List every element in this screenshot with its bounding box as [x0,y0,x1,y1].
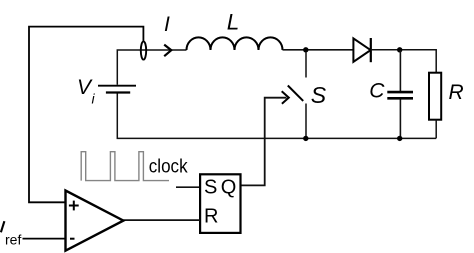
node junction dot (diode/cap) [397,47,402,52]
wire diode to output node and corner to resistor [371,50,436,73]
plus input marker [69,201,79,211]
svg-text:Q: Q [221,177,237,199]
battery Vi [98,86,136,93]
svg-text:R: R [204,206,218,228]
current arrow [164,45,171,57]
wire switch bottom to rail [305,104,307,139]
wire feedback loop: sense line to comparator + input [29,27,143,203]
resistor R [429,73,441,120]
wire node to capacitor [399,50,401,91]
switch S blade [288,86,303,101]
wire clock to S input [176,186,200,188]
flip-flop U1 (SR latch) [200,174,240,233]
capacitor C [387,92,413,98]
wire capacitor to bottom rail [399,100,401,139]
label Vref [1,221,22,247]
svg-text:L: L [227,10,240,35]
svg-text:i: i [92,90,96,106]
control arrowhead [282,91,289,104]
svg-text:R: R [449,81,464,104]
node dot capacitor/bottom rail [397,136,402,141]
label Vi [77,76,96,106]
svg-text:I: I [164,13,170,36]
node dot switch/bottom rail [303,136,308,141]
op-amp U2 comparator [66,191,124,251]
bottom rail wire [117,94,436,139]
inductor L [187,37,283,50]
wire resistor to bottom rail [435,120,437,139]
svg-text:ref: ref [5,231,21,247]
svg-text:S: S [204,177,217,199]
svg-text:clock: clock [149,155,188,177]
clock waveform [81,152,169,181]
diode D [353,38,370,62]
svg-text:S: S [311,82,327,108]
wire battery top / main node [117,50,186,85]
wire op-amp output to R input [123,219,200,221]
current sensor loop [141,41,146,59]
minus input marker [70,238,75,240]
node junction dot (inductor/diode/switch) [303,47,308,52]
wire inductor to diode [283,49,354,51]
wire node to switch top [305,53,307,78]
svg-text:C: C [369,80,385,103]
wire Vref to minus input [23,238,65,240]
wire Q output to switch control [241,98,287,186]
